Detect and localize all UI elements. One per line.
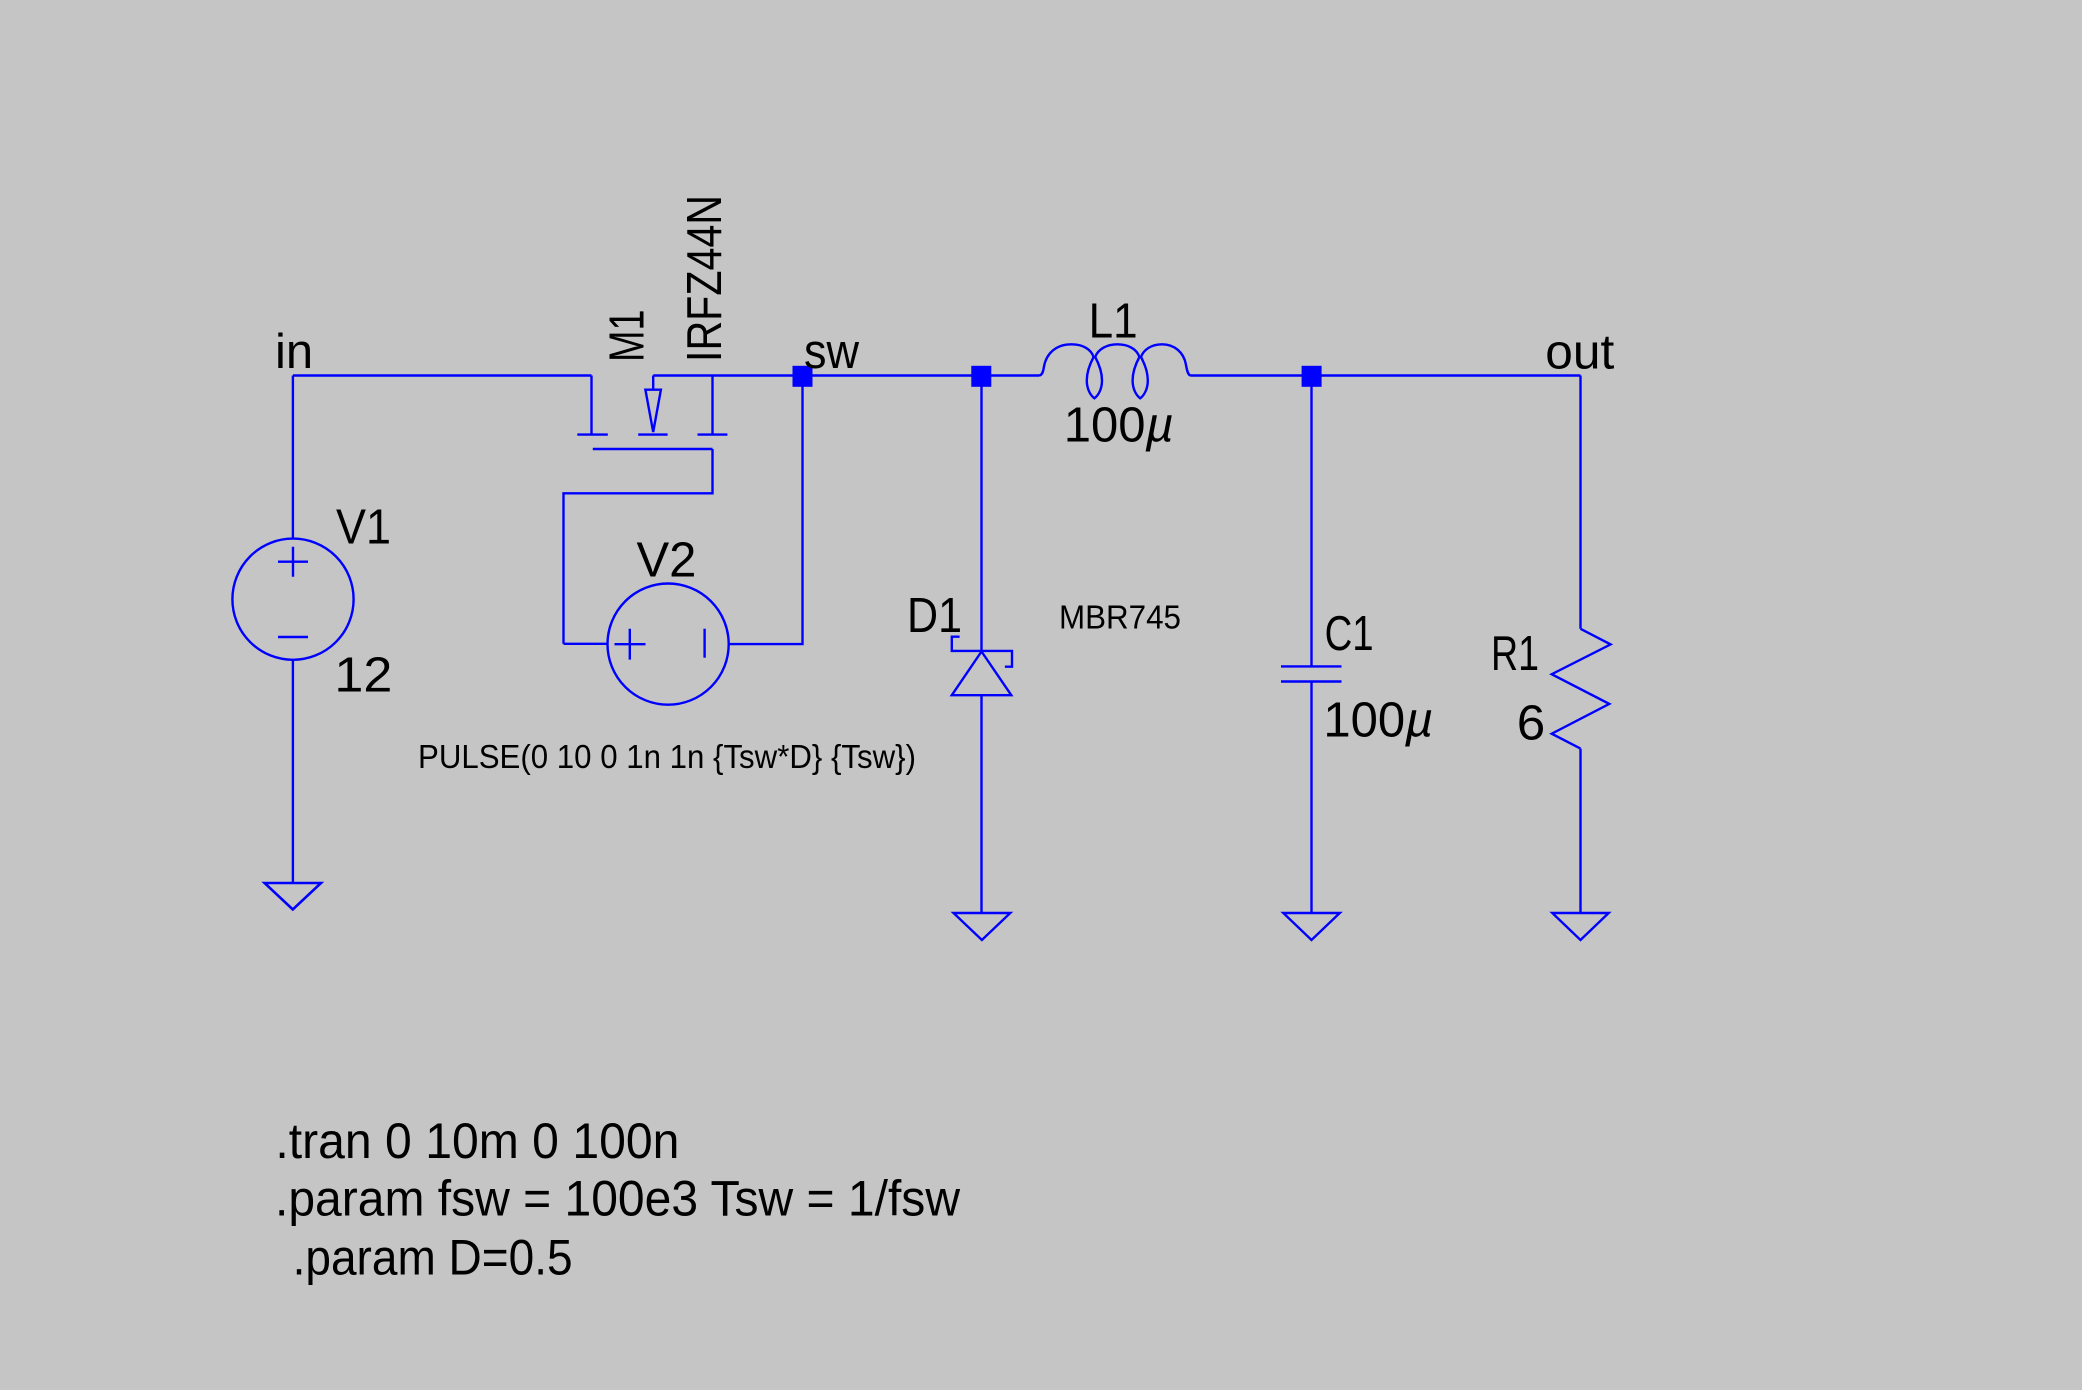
- svg-text:12: 12: [334, 649, 392, 703]
- svg-text:R1: R1: [1491, 627, 1539, 681]
- node out label: [1545, 326, 1614, 380]
- voltage source V2: [608, 584, 729, 705]
- svg-text:6: 6: [1517, 697, 1546, 751]
- ground under C1: [1283, 913, 1340, 940]
- svg-text:.param D=0.5: .param D=0.5: [293, 1229, 573, 1285]
- wire: D1 cathode lead: [980, 386, 982, 651]
- svg-text:V1: V1: [336, 501, 391, 555]
- V2 name label: [637, 534, 697, 588]
- ground under D1: [954, 913, 1011, 940]
- M1 value label IRFZ44N (rotated): [678, 195, 732, 362]
- V1 name label: [336, 501, 391, 555]
- node in label: [275, 325, 313, 379]
- svg-text:PULSE(0 10 0 1n 1n {Tsw*D} {Ts: PULSE(0 10 0 1n 1n {Tsw*D} {Tsw}): [418, 738, 916, 775]
- wire: V2 left lead to gate: [564, 643, 608, 645]
- voltage source V1: [232, 539, 353, 660]
- svg-text:.tran 0 10m 0 100n: .tran 0 10m 0 100n: [275, 1113, 679, 1169]
- C1 value label 100u: [1323, 694, 1433, 748]
- R1 name label: [1491, 627, 1539, 681]
- spice directive .tran: [275, 1113, 679, 1169]
- svg-text:MBR745: MBR745: [1059, 599, 1181, 636]
- svg-text:sw: sw: [804, 325, 860, 379]
- wire: D1 anode lead: [980, 695, 982, 913]
- svg-text:C1: C1: [1325, 607, 1374, 661]
- wire: R1 bottom lead: [1579, 749, 1581, 913]
- R1 value label 6: [1517, 697, 1546, 751]
- svg-text:100µ: 100µ: [1323, 694, 1433, 748]
- svg-text:D1: D1: [907, 589, 962, 643]
- L1 name label: [1089, 295, 1138, 349]
- V1 value label 12: [334, 649, 392, 703]
- wire: M1 source/body rail to sw node: [653, 374, 793, 376]
- svg-text:IRFZ44N: IRFZ44N: [678, 195, 732, 362]
- ground under V1: [265, 883, 321, 910]
- spice directive .param fsw: [275, 1171, 961, 1227]
- diode D1 (schottky): [952, 637, 1012, 696]
- svg-text:.param fsw = 100e3 Tsw = 1/fsw: .param fsw = 100e3 Tsw = 1/fsw: [275, 1171, 961, 1227]
- transistor M1 (nmos, rotated): [564, 376, 728, 644]
- svg-text:in: in: [275, 325, 313, 379]
- svg-text:out: out: [1545, 326, 1614, 380]
- wire: L1 to out: [1191, 374, 1581, 376]
- svg-text:M1: M1: [600, 310, 654, 363]
- C1 name label: [1325, 607, 1374, 661]
- V2 value label PULSE: [418, 738, 916, 775]
- wire: V1 top lead: [292, 376, 294, 539]
- wire: sw to L1: [812, 374, 1040, 376]
- capacitor C1: [1281, 666, 1342, 681]
- wire: in rail from node in to M1 drain: [293, 374, 592, 376]
- node junction square at D1: [971, 366, 991, 387]
- svg-text:100µ: 100µ: [1064, 399, 1174, 453]
- wire: C1 top lead: [1310, 386, 1312, 666]
- wire: V1 bottom lead: [292, 660, 294, 883]
- wire: C1 bottom lead: [1310, 682, 1312, 914]
- node sw junction square: [793, 366, 813, 387]
- ground under R1: [1552, 913, 1608, 940]
- node sw label: [804, 325, 860, 379]
- inductor L1: [1040, 344, 1191, 398]
- spice directive .param D: [293, 1229, 573, 1285]
- wire: V2 right lead up to sw: [729, 386, 803, 644]
- M1 name label (rotated): [600, 310, 654, 363]
- resistor R1: [1552, 629, 1611, 749]
- L1 value label 100u: [1064, 399, 1174, 453]
- wire: out corner down to R1: [1579, 376, 1581, 629]
- svg-text:L1: L1: [1089, 295, 1138, 349]
- node junction square at C1: [1302, 366, 1322, 387]
- D1 name label: [907, 589, 962, 643]
- D1 value label MBR745: [1059, 599, 1181, 636]
- svg-text:V2: V2: [637, 534, 697, 588]
